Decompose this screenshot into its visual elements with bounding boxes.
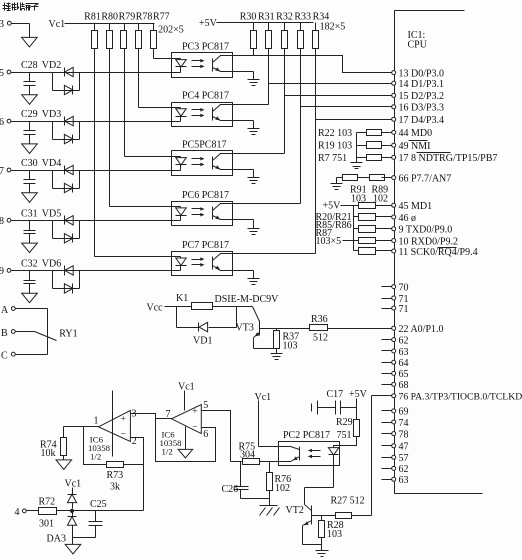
svg-text:PC2 PC817: PC2 PC817 (283, 430, 330, 441)
svg-text:68: 68 (399, 380, 409, 391)
svg-text:R81: R81 (84, 12, 101, 23)
svg-text:R79: R79 (119, 12, 136, 23)
svg-text:751: 751 (337, 430, 352, 441)
svg-text:62: 62 (399, 464, 409, 475)
svg-text:K1: K1 (176, 293, 188, 304)
svg-text:R7 751: R7 751 (318, 153, 347, 164)
svg-text:VT2: VT2 (286, 505, 304, 516)
svg-text:C32: C32 (21, 258, 38, 269)
svg-text:7: 7 (0, 166, 4, 177)
svg-text:103×5: 103×5 (316, 236, 342, 247)
svg-text:103: 103 (283, 341, 298, 352)
svg-text:R29: R29 (336, 417, 353, 428)
svg-text:304: 304 (240, 449, 255, 460)
svg-text:10 RXD0/P9.2: 10 RXD0/P9.2 (399, 236, 458, 247)
svg-text:202×5: 202×5 (158, 25, 184, 36)
svg-text:62: 62 (399, 335, 409, 346)
svg-text:69: 69 (399, 407, 409, 418)
svg-text:PC4 PC817: PC4 PC817 (182, 91, 229, 102)
svg-text:PC7 PC817: PC7 PC817 (182, 240, 229, 251)
svg-text:301: 301 (39, 519, 54, 530)
svg-text:+: + (192, 407, 197, 417)
svg-text:VD3: VD3 (42, 109, 61, 120)
svg-text:65: 65 (399, 369, 409, 380)
svg-text:182×5: 182×5 (320, 22, 346, 33)
svg-text:63: 63 (399, 475, 409, 486)
svg-text:78: 78 (399, 429, 409, 440)
svg-text:R78: R78 (136, 12, 153, 23)
svg-text:R30: R30 (240, 12, 257, 23)
svg-text:VD5: VD5 (42, 208, 61, 219)
svg-text:C26: C26 (222, 484, 239, 495)
svg-text:C25: C25 (90, 499, 107, 510)
svg-text:1: 1 (94, 416, 99, 427)
svg-text:6: 6 (0, 117, 4, 128)
svg-text:B: B (1, 328, 8, 339)
svg-text:DA3: DA3 (47, 534, 66, 545)
svg-text:22 A0/P1.0: 22 A0/P1.0 (399, 324, 444, 335)
svg-text:10k: 10k (41, 448, 56, 459)
svg-text:5: 5 (203, 400, 208, 411)
svg-text:17 D4/P3.4: 17 D4/P3.4 (399, 115, 445, 126)
svg-text:VD2: VD2 (42, 60, 61, 71)
svg-text:C30: C30 (21, 158, 38, 169)
svg-text:DSIE-M-DC9V: DSIE-M-DC9V (215, 294, 280, 305)
svg-text:PC6 PC817: PC6 PC817 (182, 190, 229, 201)
svg-text:R72: R72 (39, 497, 56, 508)
svg-text:R77: R77 (153, 12, 170, 23)
svg-text:14 D1/P3.1: 14 D1/P3.1 (399, 79, 445, 90)
svg-text:512: 512 (313, 333, 328, 344)
svg-text:C: C (1, 351, 8, 362)
svg-text:45 MD1: 45 MD1 (399, 201, 433, 212)
svg-text:66 P7.7/AN7: 66 P7.7/AN7 (399, 173, 452, 184)
svg-text:−: − (121, 430, 126, 440)
svg-text:Vc1: Vc1 (49, 19, 66, 30)
svg-text:7: 7 (166, 409, 171, 420)
svg-text:47: 47 (399, 442, 409, 453)
svg-text:3: 3 (0, 19, 4, 30)
svg-text:−: − (192, 423, 197, 433)
svg-text:74: 74 (399, 418, 409, 429)
svg-text:102: 102 (373, 194, 388, 205)
svg-text:5: 5 (0, 68, 4, 79)
svg-text:71: 71 (399, 304, 409, 315)
svg-text:63: 63 (399, 347, 409, 358)
svg-text:2: 2 (132, 436, 137, 447)
svg-text:R32: R32 (276, 12, 293, 23)
svg-text:R80: R80 (101, 12, 118, 23)
svg-text:R27 512: R27 512 (331, 496, 365, 507)
svg-text:R36: R36 (311, 314, 328, 325)
svg-text:A: A (1, 305, 9, 316)
svg-text:VD6: VD6 (42, 258, 61, 269)
svg-text:Vc1: Vc1 (65, 479, 82, 490)
svg-text:+5V: +5V (349, 389, 368, 400)
svg-text:49 NMI: 49 NMI (399, 141, 431, 152)
svg-text:16 D3/P3.3: 16 D3/P3.3 (399, 103, 445, 114)
svg-text:PC5PC817: PC5PC817 (182, 140, 226, 151)
svg-text:C29: C29 (21, 109, 38, 120)
svg-text:PC3 PC817: PC3 PC817 (182, 42, 229, 53)
svg-text:102: 102 (275, 483, 290, 494)
svg-text:VD4: VD4 (42, 158, 61, 169)
svg-text:VD1: VD1 (193, 336, 212, 347)
svg-text:44 MD0: 44 MD0 (399, 128, 433, 139)
svg-text:3: 3 (132, 409, 137, 420)
svg-text:103: 103 (327, 529, 342, 540)
svg-text:Vc1: Vc1 (255, 392, 272, 403)
svg-text:103: 103 (351, 194, 366, 205)
svg-text:3k: 3k (110, 482, 120, 493)
svg-text:+5V: +5V (199, 18, 218, 29)
svg-text:11 SCK0/RQ4/P9.4: 11 SCK0/RQ4/P9.4 (399, 247, 478, 258)
svg-text:R22 103: R22 103 (318, 128, 352, 139)
svg-text:1/2: 1/2 (162, 447, 173, 457)
svg-text:Vc1: Vc1 (178, 382, 195, 393)
svg-text:46 ø: 46 ø (399, 213, 417, 224)
svg-text:C17: C17 (327, 389, 344, 400)
svg-text:57: 57 (399, 453, 409, 464)
svg-text:1/2: 1/2 (90, 451, 101, 461)
svg-text:R31: R31 (258, 12, 275, 23)
svg-text:RY1: RY1 (59, 329, 77, 340)
svg-text:Vcc: Vcc (147, 303, 164, 314)
svg-text:76 PA.3/TP3/TIOCB.0/TCLKD: 76 PA.3/TP3/TIOCB.0/TCLKD (399, 392, 522, 403)
svg-text:70: 70 (399, 282, 409, 293)
svg-text:VT3: VT3 (236, 323, 254, 334)
svg-text:R19 103: R19 103 (318, 141, 352, 152)
svg-text:+5V: +5V (323, 201, 342, 212)
svg-text:+: + (121, 415, 126, 425)
svg-text:6: 6 (203, 429, 208, 440)
svg-text:4: 4 (15, 507, 20, 518)
svg-text:9: 9 (0, 266, 4, 277)
svg-text:C28: C28 (21, 60, 38, 71)
svg-text:R33: R33 (294, 12, 311, 23)
svg-text:C31: C31 (21, 208, 38, 219)
svg-text:64: 64 (399, 358, 409, 369)
svg-text:17 8 NDTRG/TP15/PB7: 17 8 NDTRG/TP15/PB7 (399, 153, 498, 164)
svg-text:9 TXD0/P9.0: 9 TXD0/P9.0 (399, 225, 453, 236)
svg-text:8: 8 (0, 216, 4, 227)
svg-text:R73: R73 (107, 470, 124, 481)
svg-text:CPU: CPU (408, 40, 428, 51)
svg-text:15 D2/P3.2: 15 D2/P3.2 (399, 91, 445, 102)
svg-text:13 D0/P3.0: 13 D0/P3.0 (399, 68, 445, 79)
